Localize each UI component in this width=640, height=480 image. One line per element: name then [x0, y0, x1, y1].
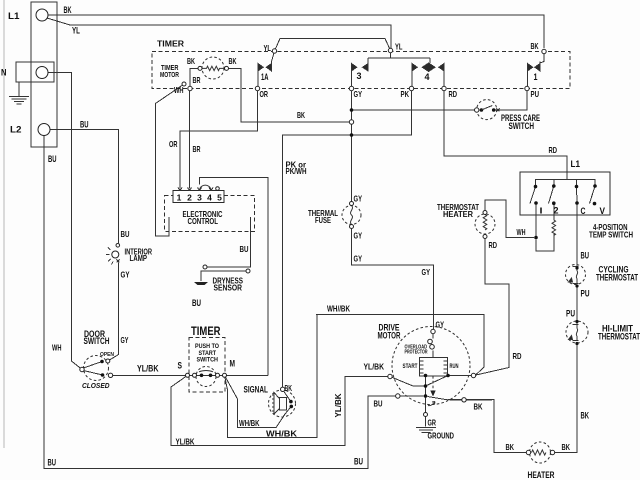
svg-text:BK: BK [285, 383, 293, 393]
svg-text:SENSOR: SENSOR [214, 284, 243, 293]
svg-text:RD: RD [549, 145, 558, 155]
svg-text:1A: 1A [261, 72, 269, 82]
svg-text:PROTECTOR: PROTECTOR [405, 350, 428, 356]
svg-text:GY: GY [121, 335, 129, 345]
svg-text:RD: RD [449, 89, 458, 99]
svg-text:GY: GY [354, 194, 363, 204]
svg-text:BU: BU [121, 229, 130, 239]
svg-text:CONTROL: CONTROL [188, 216, 219, 226]
svg-text:I: I [540, 206, 543, 216]
svg-text:YL: YL [395, 42, 403, 52]
svg-text:OR: OR [169, 139, 178, 149]
svg-text:GROUND: GROUND [428, 431, 455, 441]
svg-text:BK: BK [297, 110, 305, 120]
svg-text:1: 1 [534, 72, 538, 82]
svg-text:WH/BK: WH/BK [239, 418, 260, 428]
svg-text:BR: BR [193, 75, 201, 85]
svg-text:START: START [403, 363, 418, 370]
svg-text:TIMER: TIMER [191, 326, 221, 338]
svg-text:SWITCH: SWITCH [509, 121, 535, 131]
svg-text:THERMOSTAT: THERMOSTAT [596, 273, 638, 283]
svg-text:SWITCH: SWITCH [84, 336, 110, 346]
svg-text:N: N [1, 68, 7, 78]
svg-text:OPEN: OPEN [100, 352, 114, 358]
svg-text:GY: GY [354, 231, 363, 241]
svg-text:WH: WH [517, 227, 526, 237]
svg-text:BK: BK [562, 442, 571, 452]
svg-text:PU: PU [531, 89, 540, 99]
svg-text:MOTOR: MOTOR [160, 70, 179, 79]
svg-text:BK: BK [187, 56, 195, 66]
svg-text:YL/BK: YL/BK [333, 393, 343, 418]
svg-text:SWITCH: SWITCH [197, 357, 219, 364]
svg-text:GY: GY [121, 270, 130, 280]
svg-text:BK: BK [531, 41, 539, 51]
svg-text:RD: RD [513, 351, 522, 361]
svg-text:1: 1 [177, 193, 182, 203]
svg-text:BU: BU [581, 251, 590, 261]
svg-text:GY: GY [422, 267, 431, 277]
svg-text:BU: BU [48, 458, 57, 468]
svg-text:M: M [230, 359, 236, 369]
svg-text:SIGNAL: SIGNAL [244, 385, 269, 395]
svg-text:GR: GR [428, 418, 437, 428]
svg-text:BU: BU [48, 154, 57, 164]
svg-text:BU: BU [374, 399, 383, 409]
svg-text:C: C [581, 206, 586, 216]
svg-text:BU: BU [240, 244, 249, 254]
svg-text:TEMP SWITCH: TEMP SWITCH [589, 230, 633, 240]
svg-text:PK: PK [401, 89, 410, 99]
svg-text:WH: WH [174, 85, 184, 95]
svg-text:RUN: RUN [450, 363, 459, 370]
svg-text:3: 3 [197, 193, 202, 203]
svg-text:WH: WH [52, 343, 62, 353]
svg-text:L1: L1 [8, 11, 20, 21]
svg-text:PU: PU [566, 309, 575, 319]
svg-text:OR: OR [260, 89, 269, 99]
svg-text:MOTOR: MOTOR [378, 331, 401, 341]
svg-text:CLOSED: CLOSED [82, 383, 110, 390]
svg-text:GY: GY [354, 254, 363, 264]
svg-text:S: S [178, 361, 183, 371]
svg-text:PU: PU [581, 289, 590, 299]
svg-text:BU: BU [192, 298, 201, 308]
svg-text:V: V [600, 206, 606, 216]
svg-text:2: 2 [187, 193, 192, 203]
svg-text:5: 5 [217, 193, 222, 203]
svg-text:YL: YL [264, 43, 272, 53]
svg-text:TIMER: TIMER [157, 39, 185, 49]
svg-text:THERMOSTAT: THERMOSTAT [598, 332, 640, 342]
svg-text:BU: BU [354, 457, 363, 467]
svg-text:L2: L2 [10, 125, 22, 135]
svg-text:RD: RD [489, 240, 498, 250]
svg-text:2: 2 [554, 206, 559, 216]
svg-text:GY: GY [436, 320, 445, 330]
svg-text:GY: GY [354, 89, 363, 99]
svg-text:YL/BK: YL/BK [137, 364, 159, 374]
svg-text:BK: BK [506, 442, 515, 452]
svg-text:YL: YL [72, 26, 80, 36]
svg-text:WH//BK: WH//BK [327, 304, 351, 314]
svg-text:YL/BK: YL/BK [364, 362, 385, 372]
svg-text:PK/WH: PK/WH [286, 167, 307, 176]
svg-text:FUSE: FUSE [315, 215, 331, 225]
svg-text:4: 4 [207, 193, 212, 203]
svg-text:WH/BK: WH/BK [266, 429, 298, 439]
svg-text:BU: BU [80, 120, 89, 130]
svg-text:BR: BR [193, 144, 201, 154]
svg-text:3: 3 [357, 71, 362, 81]
svg-text:BK: BK [581, 411, 590, 421]
svg-text:L1: L1 [571, 159, 581, 169]
svg-text:LAMP: LAMP [130, 254, 148, 263]
svg-text:BK: BK [229, 56, 237, 66]
svg-text:BK: BK [474, 402, 483, 412]
svg-text:HEATER: HEATER [443, 209, 474, 219]
svg-text:BK: BK [64, 5, 72, 15]
svg-text:YL/BK: YL/BK [176, 437, 196, 447]
svg-text:HEATER: HEATER [528, 470, 555, 480]
